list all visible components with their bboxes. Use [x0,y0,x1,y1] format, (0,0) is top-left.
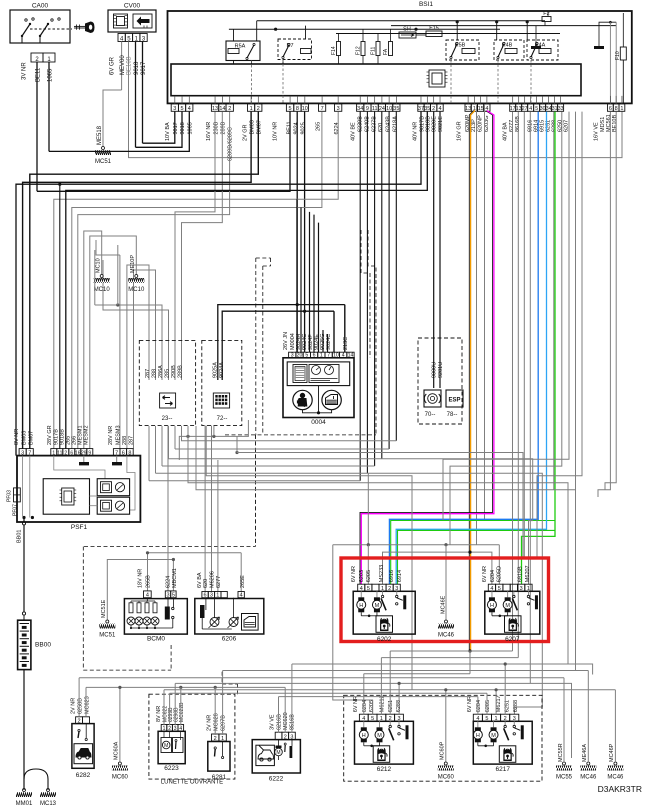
svg-text:2: 2 [284,734,287,740]
6202 lock icon box [376,616,393,633]
wire stair long row y489 to 575 [196,426,576,671]
wire 6224 down left [54,112,338,449]
wire MEV00 [121,42,123,91]
6202 motor 1 [360,591,362,597]
svg-text:6281: 6281 [212,774,227,781]
svg-text:6223: 6223 [164,765,179,772]
svg-text:286A: 286A [158,365,164,378]
svg-text:BM03: BM03 [22,431,28,445]
svg-text:MC13: MC13 [40,801,57,805]
23-- icon arrows [160,393,176,408]
wire 620MP orange [469,111,473,651]
connector 72-- dashed box [202,340,242,425]
BCM0 pins 4 3 5 [144,591,152,598]
wire 26V JN thick elbow 1 [344,305,346,353]
svg-text:288: 288 [122,436,128,445]
wire 9024 to 0004 and 72-- [296,112,298,353]
dashed link vertical right of 0004 [375,280,377,435]
wire 9020E to ESP [433,112,435,388]
relay R4B dashed [494,40,524,60]
6281 switch icon [214,747,216,749]
svg-text:2: 2 [214,736,217,742]
BSI connector pins 37 35 2 4 [418,104,424,111]
wire MDS1 vertical [598,112,610,497]
wire 6224 feed to BCM0 [167,426,169,591]
BSI connector pin 3b [335,104,342,111]
svg-text:MC10: MC10 [96,258,102,273]
wire orange junction to 6207 pin 4 [468,551,471,554]
wire 6916 blue to 6202 pin 2 [389,112,538,585]
svg-text:6V NR: 6V NR [353,696,359,712]
wire BB01 [22,522,25,525]
wire 9017 [142,42,144,144]
6217 lock icon box [499,746,516,763]
dashed link riser to 6206 [221,672,223,684]
svg-text:620: 620 [378,123,384,132]
dashed link horizontal mid [84,546,255,548]
svg-text:SH: SH [403,27,411,33]
svg-text:MC10: MC10 [128,287,145,293]
6206 fuse [200,605,205,618]
svg-text:MS233: MS233 [379,565,385,582]
svg-text:MC60: MC60 [438,775,455,781]
svg-text:6V NR: 6V NR [351,566,357,582]
dashed link horizontal under 0004 [225,434,376,436]
svg-text:BSI1: BSI1 [419,1,433,8]
window lift unit 6207 box [485,591,540,634]
svg-text:ME46A: ME46A [582,744,588,762]
wire BM03 to PSF1 [23,112,252,449]
rear screen switch 6281 [208,742,230,772]
svg-text:BM07: BM07 [29,431,35,445]
svg-text:9000U: 9000U [431,362,437,378]
wire 6251 right vertical [450,112,562,545]
fuse F11 [376,42,380,56]
svg-text:13: 13 [516,106,522,112]
PSF1 pins 3 7 [19,449,26,456]
wire MBCM1 to MC51E [107,560,173,621]
svg-text:H: H [476,733,480,739]
PSF1 bottom junctions [22,516,25,519]
wire 1065 [48,62,50,151]
wire ground bus y544.7 [333,544,500,546]
connector pins of 6207 [488,584,495,591]
svg-text:18V NR: 18V NR [138,569,144,588]
wire 285 to 23-- [103,260,169,380]
wire 6209D [78,112,230,449]
fuse F10 [620,47,626,60]
svg-text:M6212: M6212 [380,695,386,712]
svg-text:7: 7 [28,450,31,456]
wire MESM1 to ground MC10 [84,231,102,449]
svg-text:H: H [490,603,494,609]
wire 6243B vertical [388,112,390,449]
wire 6207 right vertical [537,112,582,558]
wire 265B feed [147,553,149,591]
6212 motor 2 [379,721,381,727]
svg-text:MC10: MC10 [94,287,111,293]
svg-text:13: 13 [212,106,218,112]
wire 288 from PSF1 to 23-- [134,270,156,449]
wire stair row y458 from 620 to M6207 [169,459,533,521]
wire 6288 right vertical [443,112,569,520]
svg-text:9017: 9017 [173,122,179,134]
svg-text:8V NR: 8V NR [14,429,20,445]
wire 6277 right vertical [512,112,514,651]
svg-text:MC51: MC51 [95,159,112,165]
svg-text:D3AKR3TR: D3AKR3TR [598,784,642,794]
6281 pins 2 1 [212,734,219,741]
PSF1 relay 1 [97,479,129,496]
svg-text:MC628: MC628 [214,713,220,731]
svg-text:F10: F10 [615,51,621,60]
fuse F12 [361,42,365,56]
wire 9017 bracket [143,112,175,144]
relay R4A dashed [527,40,558,60]
wire 6288 grey vertical [553,112,555,490]
connector pins of 6212 [359,714,368,721]
svg-text:11: 11 [57,450,62,456]
svg-text:9024A: 9024A [219,362,225,378]
svg-text:9: 9 [366,106,369,112]
0004 lcd icon [293,365,307,383]
wire orange bottom junction [468,649,471,652]
relay R7 dashed [278,39,312,60]
wire stair row y440 from 6218A [182,426,397,441]
svg-text:F11: F11 [371,47,377,55]
BCM0 fuses and lamps [129,603,133,613]
dashed box lunette ouvrante [149,694,235,779]
svg-text:M6206: M6206 [210,571,216,588]
6217 contact [513,721,515,725]
wire run h687 ground collector [86,686,285,688]
svg-text:37: 37 [418,106,424,112]
6282 car icon box [74,744,93,764]
svg-text:BB00: BB00 [35,642,51,649]
PSF1 chip module box [43,479,89,515]
svg-text:287: 287 [129,436,135,445]
0004 seatbelt warning icon [293,390,312,409]
6223 pins 1 2 3 4 [161,725,167,732]
ESP abs icon [424,390,441,407]
wire MC561 vertical [605,112,616,490]
relay R5B dashed [446,40,479,60]
window lift unit 6212 box [355,721,414,764]
svg-text:BM03: BM03 [250,120,256,134]
svg-text:M: M [375,603,380,609]
fuse F2 [542,17,551,22]
dashed box rear doors [344,695,542,781]
svg-text:6217: 6217 [496,766,511,773]
svg-text:16V VE: 16V VE [594,122,600,141]
svg-text:4: 4 [438,106,441,112]
svg-text:16V GR: 16V GR [457,121,463,141]
svg-text:2: 2 [64,450,67,456]
svg-text:6209D/6209C: 6209D/6209C [228,127,234,161]
svg-text:CA00: CA00 [32,3,49,10]
svg-text:MC622B: MC622B [179,702,185,722]
BSI pin stubs [174,96,176,104]
svg-text:MC46P: MC46P [609,743,615,762]
svg-text:MC60A: MC60A [114,741,120,760]
svg-text:23--: 23-- [162,416,173,422]
svg-text:8516B: 8516B [290,714,296,730]
6207 motor 1 [491,591,493,597]
svg-text:F15: F15 [429,26,438,32]
0004 window icon [322,390,341,409]
svg-text:16V NR: 16V NR [206,122,212,141]
svg-text:F2: F2 [543,11,549,17]
wire 9018 [135,42,137,148]
svg-text:9025: 9025 [301,122,307,134]
6207 switch [513,591,515,595]
wire stair row y473 from 6240B to bottom [156,473,543,714]
wire 6914 green companion [398,530,556,584]
BSI connector pins 17 13 27 4 5 30 34 31 33 [510,104,516,111]
wire 6203G magenta to 6202 pin 4 [360,111,493,584]
svg-text:1: 1 [52,450,55,456]
BSI1 body control unit box [168,11,632,103]
BSI internal wire top rail 1 [257,20,545,22]
svg-text:27: 27 [522,106,528,112]
svg-text:MM01: MM01 [16,801,33,805]
svg-text:1: 1 [221,736,224,742]
svg-text:2: 2 [228,106,231,112]
6202 motor 2 [376,591,378,597]
6207 motor 2 [507,591,509,597]
svg-text:F12: F12 [356,46,362,55]
6222 motor icon [275,748,283,756]
dashed link vertical to y546 [254,435,256,547]
dashed link riser to BCM0 [170,645,172,670]
svg-text:285: 285 [165,369,171,378]
svg-text:72--: 72-- [217,416,228,422]
svg-text:6: 6 [204,593,207,599]
wire run h651 to 6212 pin2 [390,650,512,652]
svg-text:10V BA: 10V BA [165,122,171,141]
ground MC13 [47,789,50,792]
svg-text:213C: 213C [343,337,349,350]
ground MM01 [23,789,26,792]
svg-text:MEV00: MEV00 [120,55,126,75]
PSF1 pins 1 11 2 6 16 29 9 [51,449,57,456]
shunt SH [399,32,416,38]
svg-text:6277: 6277 [216,576,222,588]
svg-text:6: 6 [122,450,125,456]
wire MS233 stub to h552 [383,552,492,584]
wire right vertical 530 [529,112,531,684]
svg-text:MC55R: MC55R [558,743,564,762]
6217 motor 1 [477,721,479,727]
svg-text:9020E: 9020E [432,116,438,132]
wire 213P grey [476,105,478,544]
svg-text:BB01: BB01 [17,530,23,543]
6202 bottom bus [361,615,377,617]
dashed stepped link to 0004 top [361,230,370,358]
svg-text:FA: FA [383,48,389,55]
svg-text:F14: F14 [331,46,337,55]
svg-text:6: 6 [70,450,73,456]
svg-text:4: 4 [188,106,191,112]
wire 6237B vertical [374,112,376,466]
6212 switch [389,721,391,725]
wire run h696 6222 to 6217 pin4 [279,696,478,698]
svg-text:6: 6 [609,106,612,112]
0004 internal link wire [303,410,332,413]
PSF1 left connector PF03 PF07 [14,488,21,502]
svg-text:9201U: 9201U [438,362,444,378]
wire 265 to PSF1 [72,112,322,449]
svg-text:6212: 6212 [377,766,392,773]
6212 lock icon box [373,746,390,763]
BSI connector pins 13 1 15 4 [465,104,471,111]
svg-text:33: 33 [558,106,564,112]
BCM0 right switch [165,607,170,620]
wire 265 bus horizontal [148,552,242,554]
svg-text:34: 34 [357,106,363,112]
svg-text:5: 5 [535,106,538,112]
svg-text:1: 1 [216,593,219,599]
6222 pins 1 2 3 [275,732,282,739]
svg-text:6224: 6224 [334,122,340,134]
wire bracket B1 to 286A [94,250,96,305]
wire 620 feed to 6206 [204,426,206,592]
wire 6915 green to 6207 pin 3 [522,112,556,585]
wire BE11 [36,62,38,191]
svg-text:M: M [505,603,510,609]
svg-text:4: 4 [146,593,149,599]
svg-text:MBCM1: MBCM1 [172,568,178,588]
wire 9017B long left [16,112,421,456]
svg-text:7: 7 [115,450,118,456]
svg-text:3: 3 [337,106,340,112]
svg-text:4: 4 [240,593,243,599]
svg-text:6222: 6222 [269,776,284,783]
wire run h690 to 6217 pin1 and MC46P [164,689,615,691]
svg-text:6251: 6251 [388,700,394,712]
svg-text:9018: 9018 [134,61,140,75]
0004 gauges icon [309,365,339,383]
6206 pins 6 3 1 4 [202,592,208,598]
wire 290B to 23-- [175,112,215,380]
fuse F14 [337,42,341,56]
wire run h657 to 6212 pin1 [381,657,518,659]
svg-text:15: 15 [478,106,484,112]
svg-text:6205: 6205 [366,570,372,582]
svg-text:230B: 230B [214,121,220,134]
svg-text:MC46: MC46 [580,775,597,781]
wires into 0004 long risers [296,199,298,352]
CV00 chip icon [114,14,128,28]
svg-text:7: 7 [321,106,324,112]
svg-text:26V JN: 26V JN [283,332,289,350]
svg-text:289B: 289B [178,365,184,378]
wire stair long row y482 to 568 [188,426,568,664]
PSF1 relay 2 [97,497,129,514]
BSI connector pins 34 9 11 24 10 35 [357,104,364,111]
svg-text:620: 620 [203,579,209,588]
svg-text:6282: 6282 [76,772,91,779]
fuse FA [389,42,393,56]
svg-text:6243B: 6243B [386,116,392,132]
svg-text:6205D: 6205D [497,566,503,582]
svg-text:6297B: 6297B [221,715,227,731]
svg-text:9017: 9017 [141,61,147,75]
svg-text:9024C: 9024C [326,334,332,350]
svg-text:9025A: 9025A [213,362,219,378]
svg-text:6204: 6204 [476,700,482,712]
svg-text:287: 287 [145,369,151,378]
wire 9021E to ESP [439,112,441,388]
svg-text:40V NR: 40V NR [413,122,419,141]
wire run h677 to MC55 ground [79,677,564,679]
svg-text:10: 10 [386,106,392,112]
svg-text:MC51E: MC51E [101,599,107,618]
connector pins of 0004 [289,352,296,358]
svg-text:MC51: MC51 [99,633,116,639]
wire BE11 long run [37,112,290,192]
wire run h664 [292,664,593,675]
wire stair row y480 from 6239B [149,480,360,482]
6223 motor icon [161,738,172,753]
6222 switch icon [284,743,286,745]
wire run h670 to ME46A ground [223,670,589,672]
svg-text:78--: 78-- [447,412,458,418]
svg-text:ESP: ESP [448,398,460,404]
svg-text:6V GR: 6V GR [110,56,116,75]
wire M6207 drop [529,521,533,585]
wire 8616B right vertical [517,112,519,658]
window lift unit 6202 box [353,591,415,634]
wire M6206 feed [211,426,213,592]
svg-text:BM07: BM07 [257,120,263,134]
BSI connector pins 6 8 1 [608,104,614,111]
svg-text:6202: 6202 [377,636,392,643]
svg-text:8: 8 [296,106,299,112]
wire run 6212 pin5 feed [372,700,374,714]
svg-text:620NP: 620NP [478,115,484,132]
svg-text:6206: 6206 [222,636,237,643]
svg-text:MC60P: MC60P [440,741,446,760]
svg-text:1: 1 [163,726,166,732]
svg-text:BE10B: BE10B [127,56,133,75]
wire link y436 under 23-- [179,420,248,460]
svg-text:MESM3: MESM3 [116,425,122,445]
wire 286A to 23-- [95,305,162,380]
svg-text:6218A: 6218A [393,116,399,132]
svg-text:M6217: M6217 [496,695,502,712]
ESP text icon [446,390,463,407]
6207 bottom bus [492,615,508,617]
svg-text:6205: 6205 [485,700,491,712]
svg-text:40V BE: 40V BE [351,122,357,141]
svg-text:8: 8 [128,450,131,456]
svg-text:2V NR: 2V NR [71,698,77,714]
svg-text:29: 29 [81,450,87,456]
svg-text:265B: 265B [146,575,152,588]
svg-text:MC620: MC620 [283,712,289,730]
svg-text:PF03: PF03 [7,490,13,502]
wire stair row y466 from 6237B [162,465,375,467]
fuse box PSF1 [17,456,140,522]
wire 265E feed to 6206 [240,553,242,592]
svg-text:1065: 1065 [48,68,54,82]
svg-text:2: 2 [257,106,260,112]
svg-text:6204: 6204 [490,570,496,582]
wire 1065 bracket [49,112,189,152]
svg-text:13: 13 [465,106,471,112]
svg-text:6205: 6205 [369,700,375,712]
